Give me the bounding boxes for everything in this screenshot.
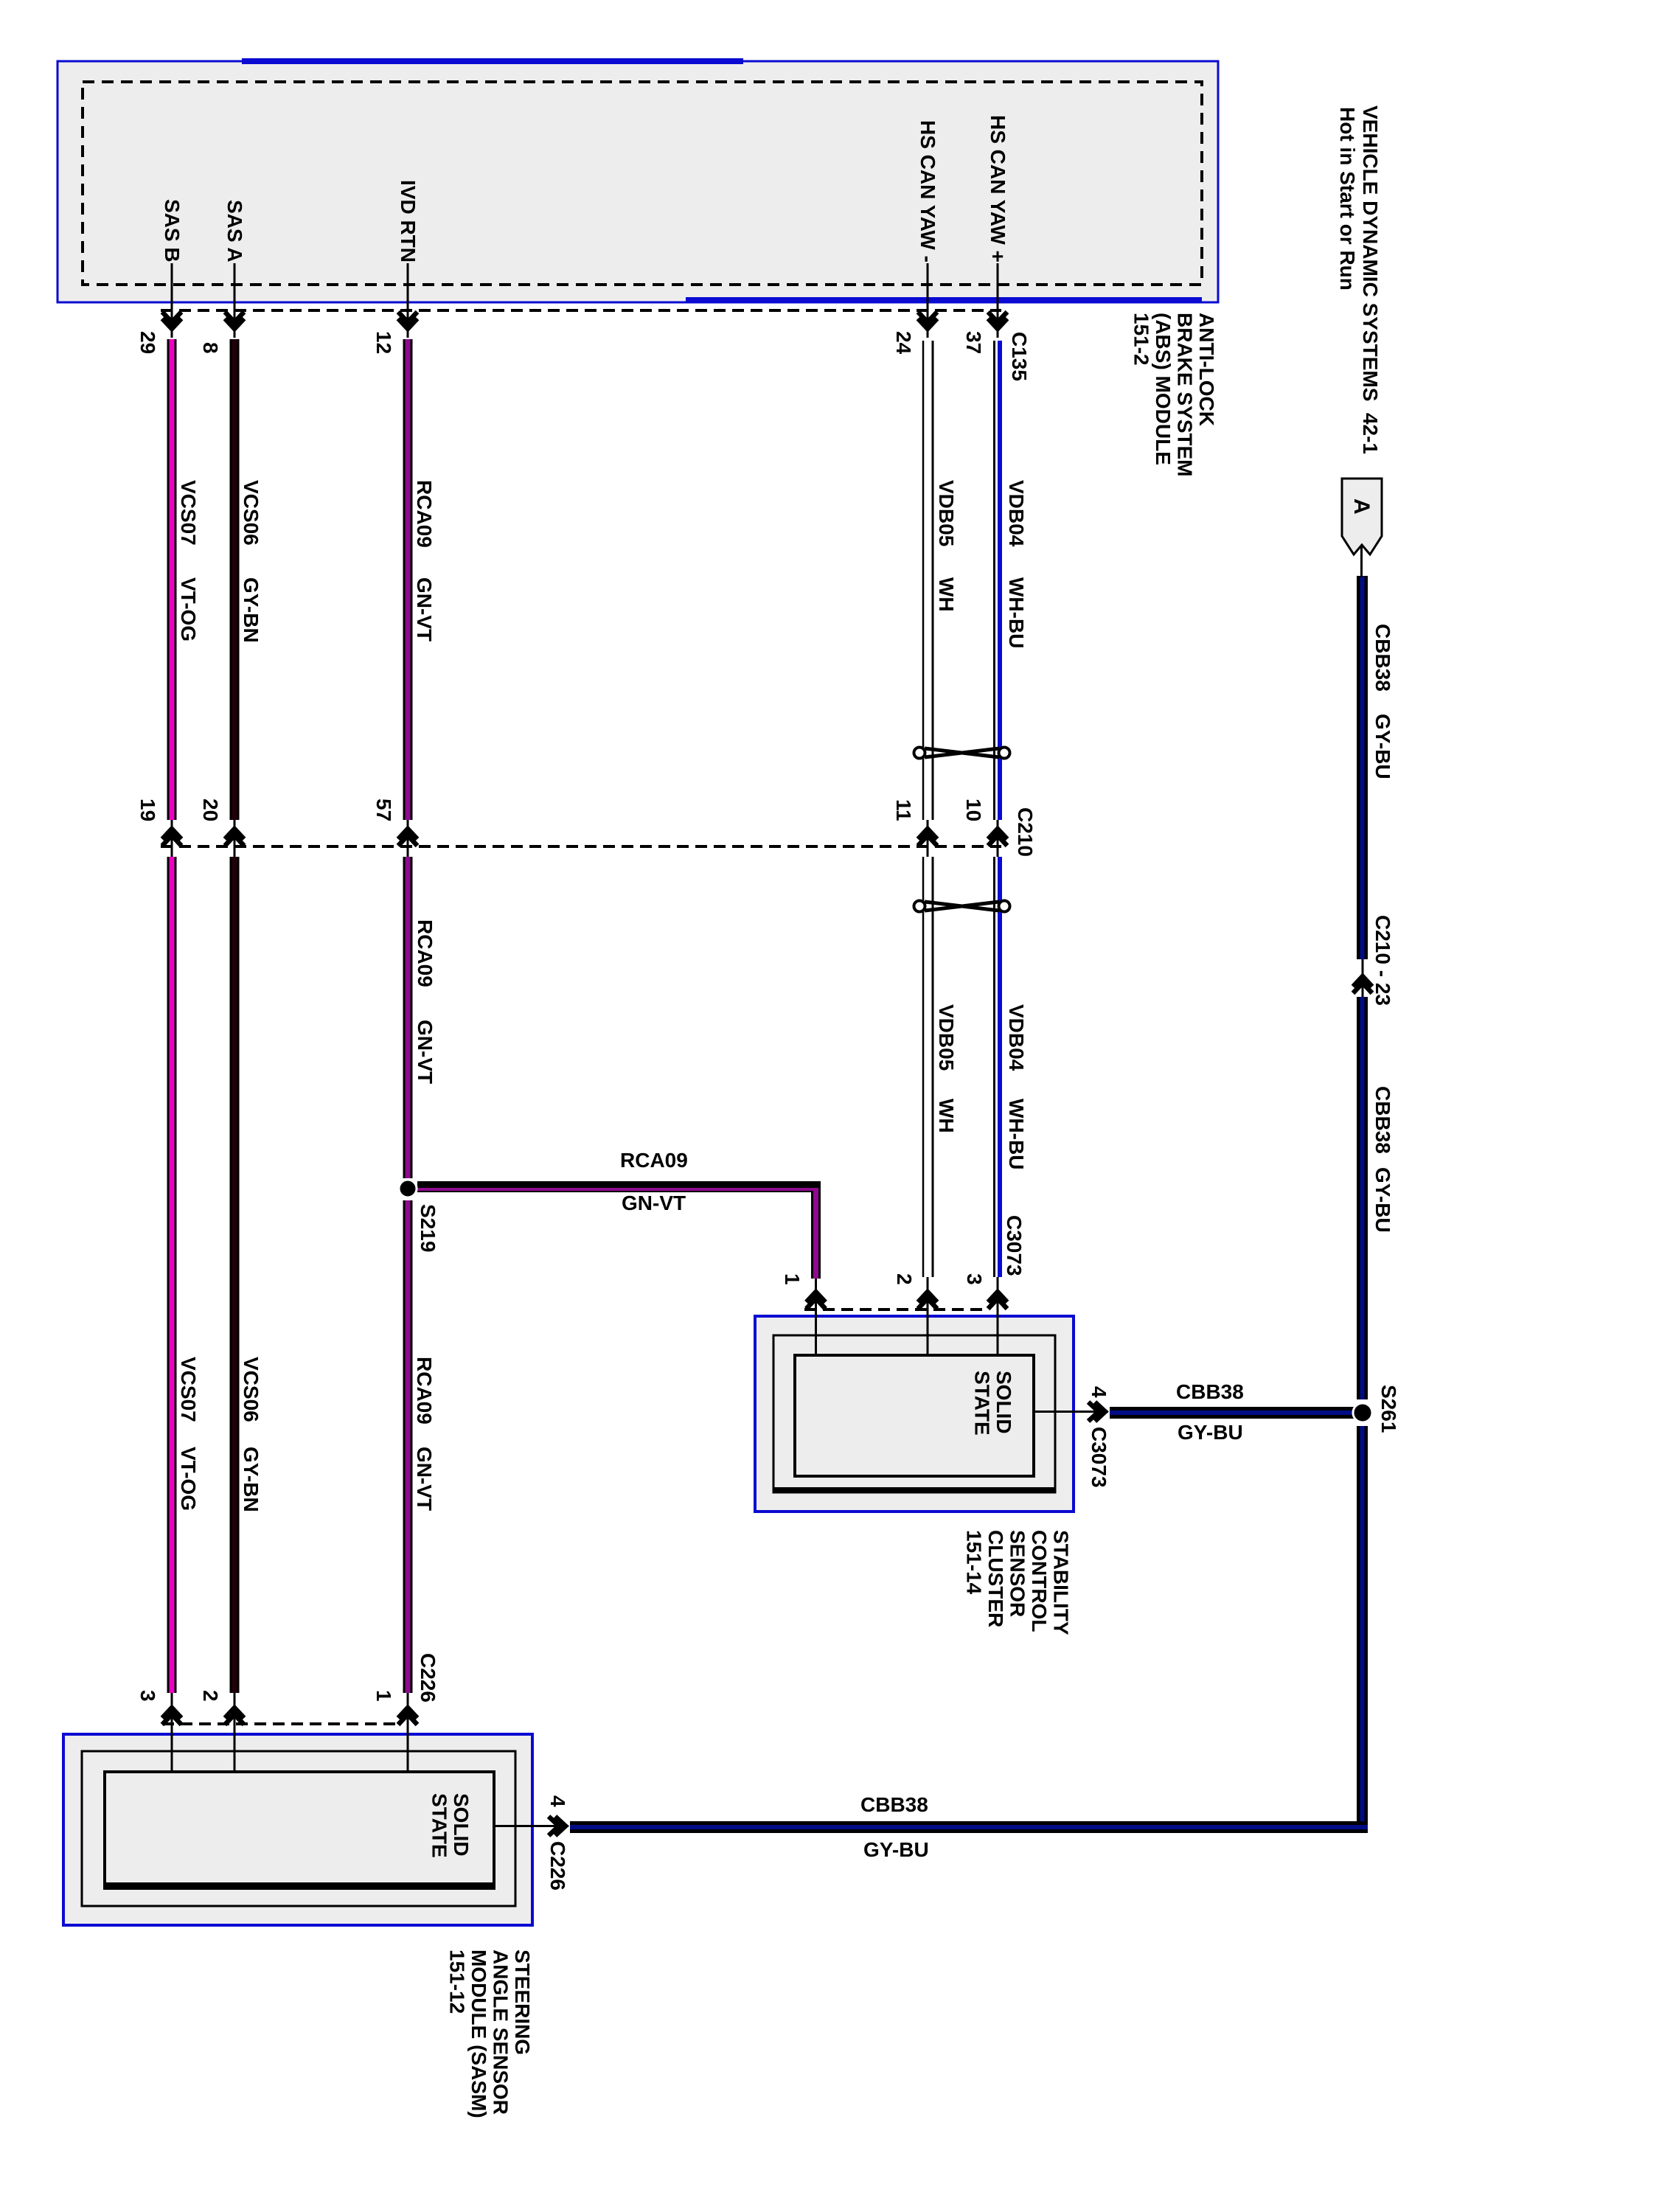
connector label C226 top [417,1653,438,1703]
SASM solid state label [428,1793,472,1858]
color label GN-VT top [414,577,434,641]
ABS pin label HS CAN YAW + [987,115,1008,262]
color label GN-VT bottom [414,1447,434,1511]
pin number 37 [963,331,984,354]
junction S219 [399,1180,417,1197]
arrow up stability pin 2 [918,1292,937,1309]
pin number 57 [373,799,394,821]
lead through C210 wire 3 [407,820,409,857]
wire VDB04 WH-BU lower segment [995,857,1003,1277]
wire VCS06 GY-BN lower segment [230,857,240,1693]
SASM pin number 1 [373,1690,394,1702]
connector C226 dashed line [162,1722,402,1725]
lead SASM pin 1 [407,1693,409,1772]
connector label C3073 top [1004,1215,1024,1276]
connector label C3073 right [1088,1427,1109,1488]
lead through C210-23 [1362,959,1364,997]
arrow up C210 pin 11 [918,829,937,846]
lead SAS A pin 8 [234,263,236,338]
arrow up SASM pin 3 [162,1708,181,1725]
connector C3073 dashed line [804,1308,989,1311]
arrow up SASM pin 2 [225,1708,244,1725]
wire CBB38 GY-BU horizontal from stability cluster pin 4 [1110,1407,1368,1419]
stability cluster name label [963,1530,1072,1635]
wire VDB04 WH-BU upper segment [995,341,1003,820]
arrow right SASM pin 4 [549,1817,566,1836]
color label WH-BU middle [1006,1099,1026,1169]
twisted pair symbol upper [914,748,1010,759]
wire CBB38 GY-BU right vertical segment 1 [1357,576,1368,959]
circuit label VCS07 bottom [178,1357,198,1422]
ABS pin label IVD RTN [397,180,418,262]
stability pin number 4 [1088,1386,1109,1398]
circuit label CBB38 right 1 [1372,624,1393,692]
lead SASM pin 2 [234,1693,236,1772]
stability pin number 3 [964,1273,984,1285]
circuit label RCA09 top [414,480,434,548]
wire VCS07 VT-OG upper segment [167,339,177,820]
arrow down pin 8 [225,312,244,329]
arrow up C210 pin 10 [988,829,1007,846]
circuit label VCS07 top [178,480,198,546]
circuit label CBB38 right 2 [1372,1086,1393,1154]
circuit label VDB04 middle [1006,1004,1026,1071]
connector C210 dashed line [161,845,1001,848]
circuit label CBB38 bottom [860,1795,928,1815]
arrow right stability pin 4 [1088,1402,1105,1422]
color label VT-OG top [178,577,198,641]
steering angle sensor module box [63,1734,532,1925]
lead from connector A flag [1360,546,1363,577]
color label GN-VT middle [414,1020,435,1084]
pin number 8 [200,342,220,354]
pin number 20 [200,799,220,821]
color label VT-OG bottom [178,1447,198,1511]
wire RCA09 GN-VT middle segment [403,857,413,1178]
color label GY-BU right 2 [1372,1167,1393,1233]
arrow down pin 29 [162,312,181,329]
wire RCA09 GN-VT upper segment [403,339,413,820]
color label GY-BU stability [1178,1422,1243,1443]
lead SASM pin 4 [494,1825,568,1827]
SASM pin number 4 [547,1795,568,1807]
color label GY-BU bottom [863,1840,929,1860]
wire VCS06 GY-BN upper segment [230,339,240,820]
stability pin number 2 [894,1273,914,1285]
arrow up C210 pin 57 [398,829,417,846]
wire CBB38 GY-BU right vertical segment 2 [1357,997,1368,1399]
lead through C210 wire 2 [234,820,236,857]
wire CBB38 GY-BU horizontal from SASM pin 4 [570,1821,1368,1833]
lead stability cluster pin 4 [1034,1411,1108,1413]
wire RCA09 GN-VT lower segment [403,1200,413,1693]
stability solid state label [971,1371,1015,1436]
lead stability cluster pin 3 [997,1277,999,1355]
ABS module name label [1130,313,1217,476]
wire RCA09 branch horizontal [417,1181,821,1192]
connector label C226 right [547,1841,568,1891]
off-page connector A flag [1342,479,1382,554]
lead SASM pin 3 [171,1693,173,1772]
lead through C210 wire 4 [927,820,929,857]
arrow down pin 12 [398,312,417,329]
connector A letter [1351,498,1371,515]
lead HS CAN YAW- pin 24 [927,263,929,338]
lead through C210 wire 1 [171,820,173,857]
ABS pin label HS CAN YAW - [917,120,938,262]
wire VCS07 VT-OG lower segment [167,857,177,1693]
lead SAS B pin 29 [171,263,173,338]
splice label S261 [1378,1385,1399,1433]
header title [1360,105,1380,454]
arrow up stability pin 3 [988,1292,1007,1309]
splice label S219 [417,1204,438,1252]
lead HS CAN YAW+ pin 37 [997,263,999,338]
arrow up stability pin 1 [807,1292,826,1309]
circuit label CBB38 stability [1176,1382,1244,1402]
wire CBB38 GY-BU right vertical segment 3 [1357,1426,1368,1821]
arrow up SASM pin 1 [398,1708,417,1725]
branch color label GN-VT [622,1193,686,1214]
connector label C135 [1009,332,1029,381]
circuit label VDB05 middle [936,1004,956,1071]
color label WH-BU top [1006,577,1026,648]
connector label C210 - 23 [1372,915,1393,1006]
connector label C210 [1015,807,1035,857]
color label WH top [936,577,956,612]
pin number 12 [373,331,394,354]
arrow up C210 pin 20 [225,829,244,846]
color label GY-BU right 1 [1372,714,1393,779]
wire VDB05 WH upper segment [923,341,933,820]
pin number 11 [893,799,914,821]
pin number 10 [963,799,984,821]
circuit label RCA09 middle [414,919,435,987]
pin number 29 [137,331,158,354]
stability control sensor cluster box [755,1316,1074,1512]
circuit label VCS06 bottom [240,1357,261,1422]
color label GY-BN top [240,577,261,643]
stability pin number 1 [782,1273,802,1285]
lead through C210 wire 5 [997,820,999,857]
color label GY-BN bottom [240,1447,261,1512]
branch circuit label RCA09 [620,1150,688,1171]
wire RCA09 branch vertical drop [811,1191,821,1279]
SASM pin number 2 [200,1690,220,1702]
lead stability cluster pin 1 [815,1279,817,1355]
SASM pin number 3 [137,1690,158,1702]
connector C135 dashed line [161,309,1001,312]
arrow down pin 24 [918,312,937,329]
arrow up C210-23 [1353,976,1372,993]
pin number 19 [137,799,158,821]
circuit label VCS06 top [240,480,261,546]
junction S261 [1353,1403,1372,1422]
ABS module box [58,58,1218,303]
lead IVD RTN pin 12 [407,263,409,338]
SASM name label [446,1950,533,2118]
lead stability cluster pin 2 [927,1277,929,1355]
header subtitle [1337,107,1357,291]
color label WH middle [936,1099,956,1133]
ABS pin label SAS A [224,200,245,262]
wire VDB05 WH lower segment [923,857,933,1277]
ABS pin label SAS B [161,199,182,262]
circuit label VDB04 top [1006,480,1026,546]
ABS module inner dashed border [83,82,1202,285]
arrow up C210 pin 19 [162,829,181,846]
pin number 24 [893,331,914,354]
circuit label RCA09 bottom [414,1357,434,1425]
twisted pair symbol lower [914,901,1010,912]
arrow down pin 37 [988,312,1007,329]
circuit label VDB05 top [936,480,956,546]
